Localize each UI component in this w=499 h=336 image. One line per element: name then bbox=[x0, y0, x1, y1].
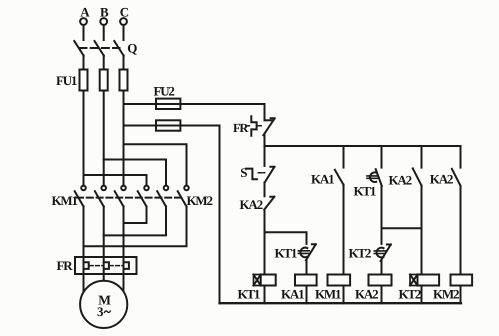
svg-text:KM2: KM2 bbox=[187, 193, 213, 208]
svg-text:FU1: FU1 bbox=[56, 73, 77, 88]
svg-text:FR: FR bbox=[57, 258, 74, 273]
svg-text:KA2: KA2 bbox=[389, 173, 412, 188]
svg-text:KA1: KA1 bbox=[311, 171, 334, 186]
svg-text:KT2: KT2 bbox=[399, 286, 421, 301]
svg-text:FR: FR bbox=[233, 121, 249, 135]
svg-text:FU2: FU2 bbox=[154, 84, 175, 99]
svg-text:KM1: KM1 bbox=[52, 193, 78, 208]
svg-text:KT1: KT1 bbox=[238, 286, 260, 301]
svg-text:KA2: KA2 bbox=[430, 172, 453, 187]
svg-text:KT1: KT1 bbox=[275, 246, 297, 261]
svg-text:KT1: KT1 bbox=[354, 184, 376, 199]
svg-text:C: C bbox=[120, 5, 129, 20]
svg-text:KM1: KM1 bbox=[315, 286, 341, 301]
svg-text:Q: Q bbox=[127, 41, 137, 56]
svg-text:KA2: KA2 bbox=[355, 286, 378, 301]
svg-text:KA2: KA2 bbox=[240, 197, 263, 212]
svg-text:S: S bbox=[240, 165, 247, 180]
svg-text:KM2: KM2 bbox=[433, 286, 459, 301]
svg-text:KT2: KT2 bbox=[349, 246, 371, 261]
svg-text:KA1: KA1 bbox=[281, 286, 304, 301]
